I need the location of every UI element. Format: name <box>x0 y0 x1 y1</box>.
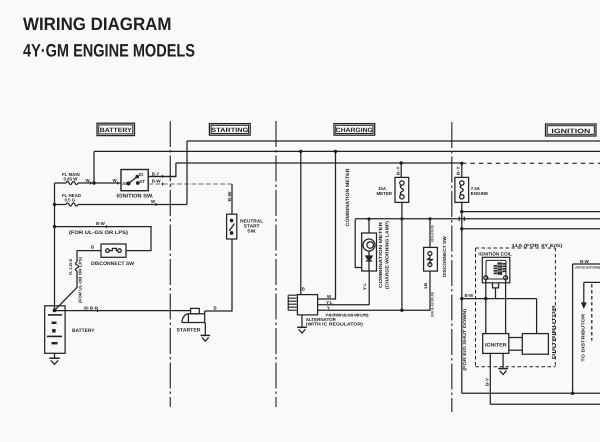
svg-text:COMBINATION METER: COMBINATION METER <box>345 168 351 227</box>
svg-text:B-Y: B-Y <box>396 166 401 175</box>
svg-text:1B: 1B <box>424 282 428 289</box>
svg-text:AM: AM <box>122 181 129 186</box>
svg-text:(CHARGE WORNING LAMP): (CHARGE WORNING LAMP) <box>385 220 390 289</box>
svg-text:FL 1.25 B: FL 1.25 B <box>68 259 73 275</box>
svg-text:Y-L: Y-L <box>362 282 367 290</box>
svg-text:(FOR E/G SHUT DOWN): (FOR E/G SHUT DOWN) <box>462 308 467 371</box>
svg-text:B-W: B-W <box>96 221 106 226</box>
svg-text:BATTERY: BATTERY <box>100 127 133 134</box>
svg-text:Y-B (FOR UL-GS OR LPS): Y-B (FOR UL-GS OR LPS) <box>326 312 370 317</box>
svg-text:ENGINE: ENGINE <box>471 191 489 196</box>
svg-text:Y-L: Y-L <box>326 300 333 305</box>
svg-text:B-Y: B-Y <box>152 171 160 176</box>
svg-text:(FOR UL-OB OR LPS): (FOR UL-OB OR LPS) <box>77 256 82 303</box>
svg-text:CHARGING: CHARGING <box>336 127 373 134</box>
svg-text:30 B-R: 30 B-R <box>84 306 99 311</box>
svg-text:11A (FOR 4Y E/G): 11A (FOR 4Y E/G) <box>512 243 564 248</box>
svg-text:(FOR UL-GS OR LPS): (FOR UL-GS OR LPS) <box>69 230 128 236</box>
svg-text:0.5 G: 0.5 G <box>65 198 76 203</box>
svg-text:B-W: B-W <box>465 293 475 298</box>
svg-text:DISTRIBUTOR: DISTRIBUTOR <box>551 304 556 360</box>
svg-text:0.85 W: 0.85 W <box>64 176 79 181</box>
svg-text:4Y·GM ENGINE MODELS: 4Y·GM ENGINE MODELS <box>23 41 195 61</box>
svg-text:IG: IG <box>139 172 144 177</box>
svg-text:IGNITION SW.: IGNITION SW. <box>117 194 155 200</box>
svg-text:STARTER: STARTER <box>177 328 201 334</box>
svg-text:DISCONNECT SW: DISCONNECT SW <box>442 235 447 277</box>
svg-text:B-W: B-W <box>227 191 232 202</box>
svg-text:B-Y: B-Y <box>456 166 461 175</box>
svg-text:BATTERY: BATTERY <box>72 328 95 334</box>
svg-text:DISCONNECT SW: DISCONNECT SW <box>91 261 134 267</box>
svg-text:(FOR UL-GS OR LPS): (FOR UL-GS OR LPS) <box>430 292 434 317</box>
svg-text:STARTING: STARTING <box>211 127 248 134</box>
svg-text:IGNITION: IGNITION <box>551 128 591 135</box>
svg-text:IGNITION COIL: IGNITION COIL <box>478 252 512 257</box>
svg-text:SW.: SW. <box>247 229 256 234</box>
svg-text:B-W: B-W <box>152 179 162 184</box>
svg-text:B-W: B-W <box>580 259 590 264</box>
svg-text:(WITH IC REGULATOR): (WITH IC REGULATOR) <box>306 322 364 327</box>
svg-text:(FOR E/G SHUT DOWN): (FOR E/G SHUT DOWN) <box>576 266 600 270</box>
svg-text:TO DISTRIBUTOR: TO DISTRIBUTOR <box>580 313 585 362</box>
svg-text:B: B <box>302 287 305 292</box>
svg-text:ST: ST <box>139 179 145 184</box>
svg-text:B: B <box>91 245 94 250</box>
svg-text:B-Y: B-Y <box>484 377 489 386</box>
svg-text:B: B <box>214 306 217 311</box>
svg-text:METER: METER <box>377 191 393 196</box>
svg-text:WIRING DIAGRAM: WIRING DIAGRAM <box>23 14 172 34</box>
svg-text:IGNITER: IGNITER <box>485 343 507 349</box>
svg-text:(FOR UL-GS OR LPS): (FOR UL-GS OR LPS) <box>430 225 434 242</box>
svg-text:Y: Y <box>327 305 330 310</box>
svg-text:COMBINATION METER: COMBINATION METER <box>378 221 383 288</box>
